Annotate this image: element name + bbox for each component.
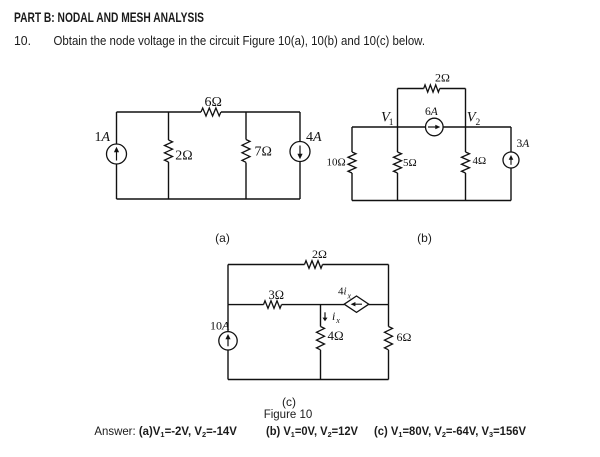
wire: (b) top loop left vertical: [397, 89, 399, 128]
current source I=10A (c): [219, 332, 237, 350]
wire: (b) middle wire left segment: [352, 126, 398, 128]
wire: (a) 7ohm branch top: [245, 112, 247, 140]
wire: (a) top wire left of 6ohm: [117, 111, 202, 113]
wire: (b) 10ohm branch bottom: [351, 173, 353, 201]
wire: (b) 4ohm branch bottom: [465, 173, 467, 201]
wire: (c) left vertical, below 10A source: [227, 350, 229, 380]
svg-text:(a): (a): [215, 231, 230, 245]
resistor 7ohm (a): [242, 140, 250, 163]
wire: (c) bottom wire: [228, 379, 389, 381]
wire: (b) bottom wire: [352, 200, 511, 202]
svg-text:4i: 4i: [338, 286, 347, 298]
wire: (c) right vertical top segment: [388, 265, 390, 305]
wire: (b) top loop right vertical: [465, 89, 467, 128]
wire: (c) middle branch top: [320, 305, 322, 327]
current source I=4A (a): [290, 142, 310, 162]
svg-text:2Ω: 2Ω: [175, 149, 192, 164]
wire: (b) middle wire V2 to right corner: [466, 126, 512, 128]
wire: (b) top wire right of 2ohm: [440, 88, 466, 90]
wire: (b) 5ohm branch top: [397, 127, 399, 152]
svg-text:10A: 10A: [210, 319, 230, 333]
svg-text:4Ω: 4Ω: [473, 155, 487, 167]
wire: (c) right vertical below 6ohm: [388, 350, 390, 380]
current label ix with down arrow: [324, 312, 326, 319]
wire: (b) right vertical top segment: [510, 127, 512, 152]
svg-text:6A: 6A: [425, 106, 439, 118]
wire: (b) middle wire V1 to 6A source: [398, 126, 426, 128]
resistor 4ohm (b): [462, 152, 470, 173]
current source I=3A (b): [503, 152, 519, 168]
svg-text:Figure 10: Figure 10: [264, 409, 313, 421]
wire: (a) 2ohm branch bottom: [168, 162, 170, 199]
svg-text:10Ω: 10Ω: [327, 157, 346, 169]
svg-text:4Ω: 4Ω: [328, 328, 344, 343]
svg-text:5Ω: 5Ω: [403, 157, 417, 169]
wire: (c) top wire left of 2ohm: [228, 264, 305, 266]
wire: (c) right vertical above 6ohm: [388, 305, 390, 327]
svg-text:1: 1: [389, 118, 394, 128]
svg-text:x: x: [347, 292, 352, 301]
resistor 2ohm (b): [424, 85, 440, 92]
resistor 6ohm (c): [385, 327, 393, 350]
current source I=6A (b): [426, 118, 444, 136]
wire: (b) middle wire 6A source to V2: [443, 126, 465, 128]
wire: (a) 2ohm branch top: [168, 112, 170, 140]
dependent current source 4ix (diamond, c): [344, 296, 369, 312]
wire: (b) 10ohm branch top: [351, 127, 353, 152]
svg-text:3Ω: 3Ω: [269, 288, 285, 302]
wire: (a) left vertical bottom segment: [116, 164, 118, 199]
svg-text:i: i: [332, 309, 335, 323]
svg-text:3A: 3A: [517, 138, 531, 150]
svg-text:PART B: NODAL AND MESH ANALYSI: PART B: NODAL AND MESH ANALYSIS: [14, 9, 204, 25]
wire: (a) bottom wire: [117, 198, 301, 200]
svg-text:7Ω: 7Ω: [255, 145, 272, 160]
resistor 2ohm (a): [165, 140, 173, 162]
wire: (b) 5ohm branch bottom: [397, 173, 399, 201]
svg-text:2Ω: 2Ω: [312, 247, 327, 261]
wire: (a) top wire right of 6ohm: [221, 111, 300, 113]
wire: (c) middle wire 3ohm to center node: [282, 304, 345, 306]
wire: (c) middle wire left of 3ohm: [228, 304, 264, 306]
resistor 6ohm (a): [201, 108, 221, 116]
wire: (c) middle wire diamond to right: [369, 304, 389, 306]
svg-text:6Ω: 6Ω: [205, 95, 222, 110]
wire: (a) left vertical top segment: [116, 112, 118, 144]
svg-text:(b): (b): [417, 231, 432, 245]
svg-text:Answer: (a)V1=-2V, V2=-14V: Answer: (a)V1=-2V, V2=-14V: [94, 426, 237, 439]
wire: (a) right vertical top segment: [299, 112, 301, 142]
wire: (c) left vertical top segment: [227, 265, 229, 305]
svg-text:6Ω: 6Ω: [397, 330, 412, 344]
resistor 5ohm (b): [394, 152, 402, 173]
resistor 10ohm (b): [348, 152, 356, 173]
wire: (c) middle branch bottom: [320, 350, 322, 380]
svg-text:1A: 1A: [95, 130, 111, 145]
wire: (c) top wire right of 2ohm: [323, 264, 389, 266]
svg-text:(c): (c): [282, 395, 296, 409]
svg-text:Obtain the node voltage in the: Obtain the node voltage in the circuit F…: [54, 33, 426, 48]
resistor 3ohm (c): [264, 301, 282, 309]
svg-text:(b) V1=0V, V2=12V: (b) V1=0V, V2=12V: [266, 426, 358, 439]
wire: (b) right vertical bottom segment: [510, 168, 512, 201]
wire: (b) top wire left of 2ohm: [398, 88, 424, 90]
svg-text:4A: 4A: [306, 130, 322, 145]
wire: (a) 7ohm branch bottom: [245, 163, 247, 200]
resistor 2ohm (c): [305, 261, 323, 269]
current source I=1A (a): [107, 144, 127, 164]
wire: (b) 4ohm branch top: [465, 127, 467, 152]
svg-text:10.: 10.: [14, 33, 31, 48]
wire: (c) left vertical, above 10A source: [227, 305, 229, 332]
svg-text:x: x: [335, 316, 340, 325]
resistor 4ohm (c): [317, 327, 325, 350]
wire: (a) right vertical bottom segment: [299, 162, 301, 200]
svg-text:2Ω: 2Ω: [435, 71, 450, 85]
svg-text:(c) V1=80V, V2=-64V, V3=156V: (c) V1=80V, V2=-64V, V3=156V: [374, 426, 526, 439]
